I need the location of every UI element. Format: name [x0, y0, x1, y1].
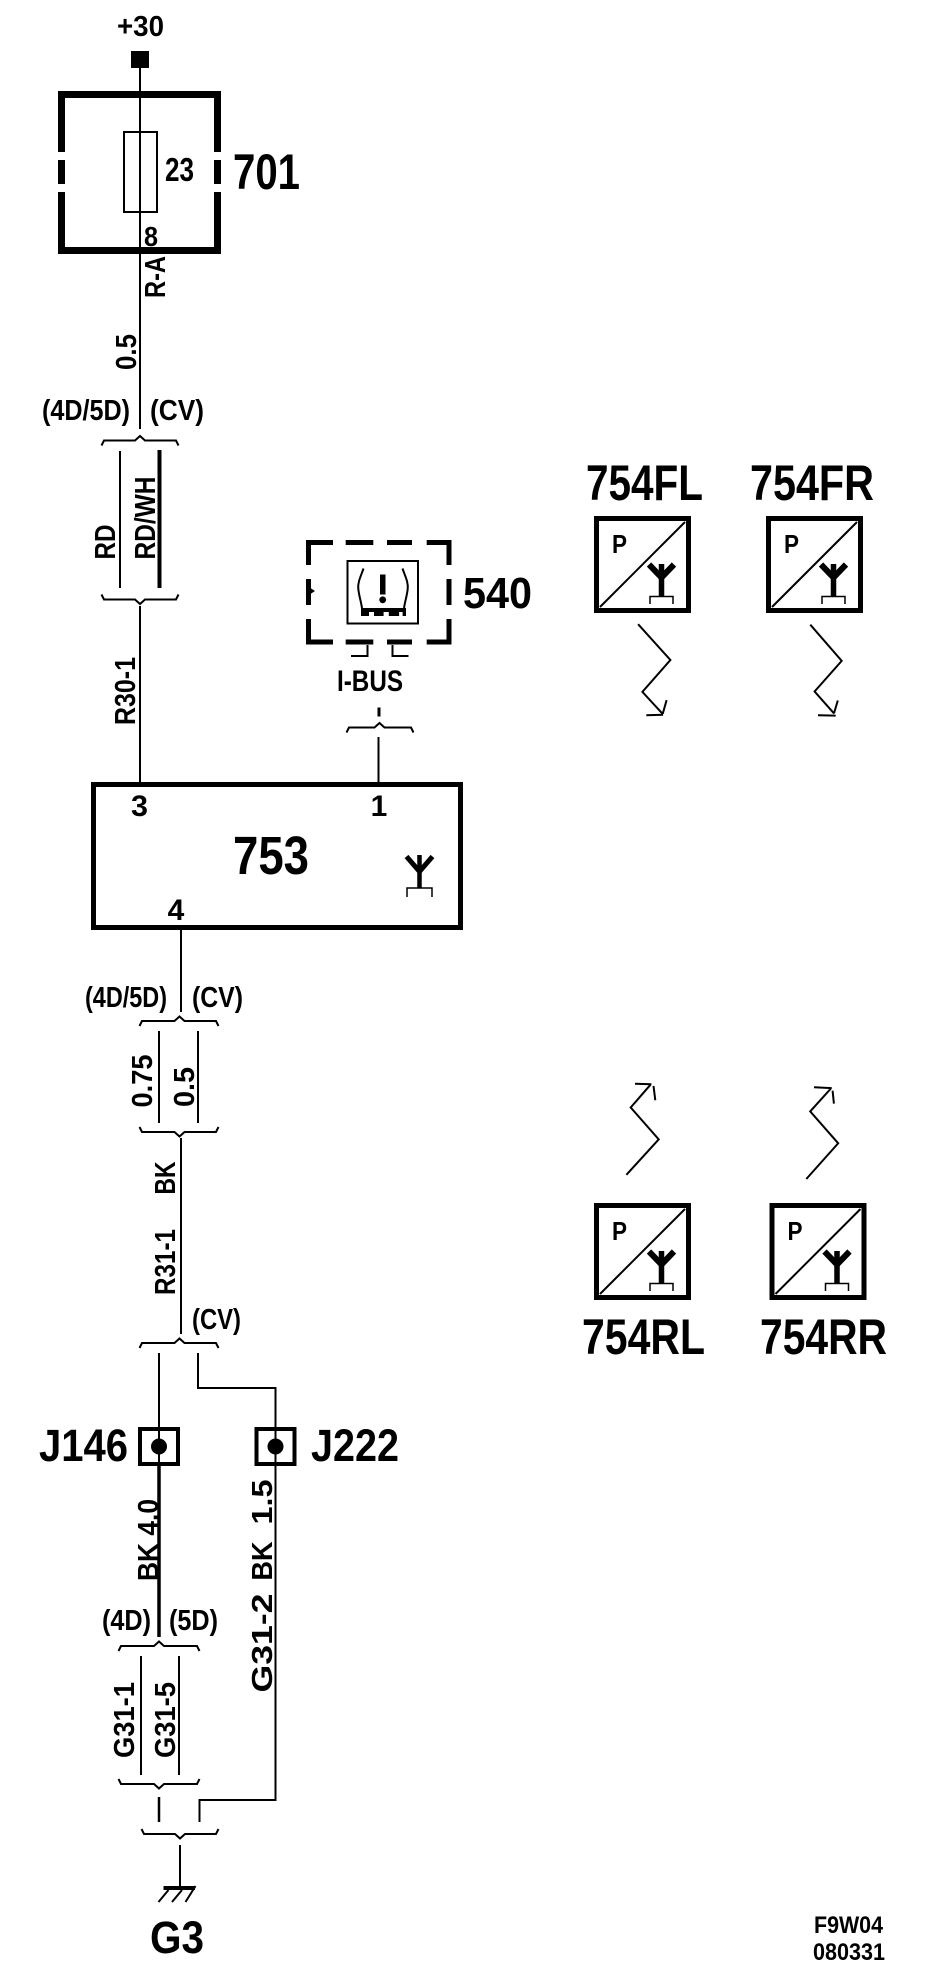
warning lamp unit 540 dashed box [309, 543, 450, 643]
RF arrow from 754FR [810, 625, 841, 716]
wheel sensor 754RR box [772, 1206, 864, 1298]
svg-text:753: 753 [233, 826, 309, 886]
wire to J146 [158, 1353, 160, 1466]
tyre pressure icon tyre walls [358, 569, 363, 609]
svg-text:3: 3 [131, 790, 148, 823]
svg-text:23: 23 [165, 151, 194, 188]
junction J222 box [257, 1429, 295, 1464]
ground symbol G3 [159, 1886, 196, 1902]
wire from +30 terminal through fuse holder [139, 68, 141, 254]
fuse 23 element [124, 132, 157, 212]
brace split 7 [119, 1642, 200, 1652]
brace split 6 [140, 1339, 219, 1349]
svg-text:G31-5: G31-5 [150, 1682, 182, 1758]
RF arrow from 754FL [638, 624, 670, 715]
junction J146 dot [151, 1439, 167, 1455]
brace merge 9 [142, 1829, 219, 1839]
svg-text:BK: BK [150, 1161, 182, 1194]
wire 0.5 [197, 1031, 199, 1123]
svg-text:(4D/5D): (4D/5D) [42, 395, 130, 427]
wire to pin 1 [378, 737, 380, 784]
svg-text:I-BUS: I-BUS [337, 665, 403, 698]
brace merge 8 [119, 1779, 200, 1789]
svg-text:RD/WH: RD/WH [130, 477, 162, 560]
svg-text:1.5: 1.5 [247, 1480, 279, 1525]
svg-text:4: 4 [168, 894, 185, 927]
wire R-A below 701 [139, 254, 141, 429]
wheel sensor 754FR box [769, 519, 861, 611]
tyre pressure icon tread [361, 608, 406, 616]
svg-text:J222: J222 [311, 1420, 399, 1471]
short wire below brace 8 [158, 1797, 161, 1822]
wire RD/WH [158, 450, 162, 588]
small tick on 540 left edge [311, 588, 315, 593]
svg-text:540: 540 [463, 569, 532, 618]
junction J222 dot [268, 1439, 284, 1455]
svg-text:(CV): (CV) [150, 395, 204, 427]
connector hook left under 540 [351, 645, 368, 656]
wire R31-1 [180, 1138, 182, 1334]
wheel sensor 754FL box [597, 519, 689, 611]
brace I-BUS 3 [347, 723, 414, 733]
fuse holder box 701 [58, 91, 221, 254]
wheel sensor 754RL box [597, 1206, 689, 1298]
wire R30-1 [139, 606, 141, 784]
svg-text:R30-1: R30-1 [110, 657, 142, 725]
540 inner icon frame [348, 561, 419, 624]
svg-text:754FR: 754FR [750, 455, 874, 511]
svg-text:8: 8 [144, 221, 158, 252]
wire from J222 branch to ground brace [200, 1800, 276, 1822]
wire below J222 [275, 1466, 277, 1801]
svg-text:754FL: 754FL [586, 455, 703, 511]
RF arrow from 754RL [626, 1084, 658, 1175]
svg-text:080331: 080331 [813, 1939, 885, 1966]
wire G31-5 [178, 1656, 180, 1775]
brace merge 2 [102, 595, 179, 605]
wire from pin 4 [180, 930, 182, 1012]
receiver unit 753 box [94, 785, 461, 928]
brace merge 5 [140, 1127, 219, 1137]
wire BK 4.0 below J146 [157, 1466, 161, 1637]
svg-text:G3: G3 [150, 1912, 204, 1963]
brace split 1 [102, 436, 179, 446]
svg-text:(4D/5D): (4D/5D) [85, 982, 167, 1014]
wire to ground [179, 1845, 181, 1886]
dashed I-BUS stub [378, 708, 381, 717]
svg-text:F9W04: F9W04 [814, 1912, 884, 1939]
antenna symbol in 753 [407, 855, 433, 897]
svg-text:754RR: 754RR [760, 1309, 887, 1365]
tyre pressure icon exclamation dot [379, 596, 386, 603]
svg-text:(CV): (CV) [192, 1304, 241, 1336]
svg-text:+30: +30 [117, 11, 164, 43]
svg-text:701: 701 [233, 144, 300, 200]
tyre pressure icon exclamation bar [380, 575, 386, 595]
svg-text:754RL: 754RL [582, 1309, 705, 1365]
wire 0.75 [158, 1031, 160, 1123]
svg-text:R-A: R-A [140, 256, 172, 298]
svg-text:1: 1 [371, 790, 388, 823]
svg-text:(4D): (4D) [102, 1605, 151, 1637]
RF arrow from 754RR [806, 1087, 838, 1179]
svg-text:J146: J146 [39, 1420, 128, 1471]
brace split 4 [140, 1017, 219, 1027]
junction J146 box [140, 1429, 178, 1464]
svg-text:(5D): (5D) [169, 1605, 218, 1637]
svg-text:(CV): (CV) [192, 982, 243, 1014]
wire to J222 [198, 1353, 276, 1466]
svg-text:0.5: 0.5 [169, 1067, 201, 1107]
svg-text:0.5: 0.5 [111, 334, 143, 370]
svg-text:BK: BK [247, 1541, 279, 1580]
wire G31-1 [140, 1656, 142, 1775]
wire RD [119, 451, 121, 588]
svg-text:BK 4.0: BK 4.0 [133, 1499, 165, 1581]
svg-text:0.75: 0.75 [127, 1055, 159, 1108]
svg-text:RD: RD [90, 525, 122, 560]
svg-text:G31-1: G31-1 [109, 1682, 141, 1758]
svg-text:R31-1: R31-1 [150, 1229, 182, 1295]
node +30 terminal square [131, 51, 149, 68]
svg-text:G31-2: G31-2 [247, 1594, 279, 1693]
connector hook right under 540 [393, 645, 409, 656]
